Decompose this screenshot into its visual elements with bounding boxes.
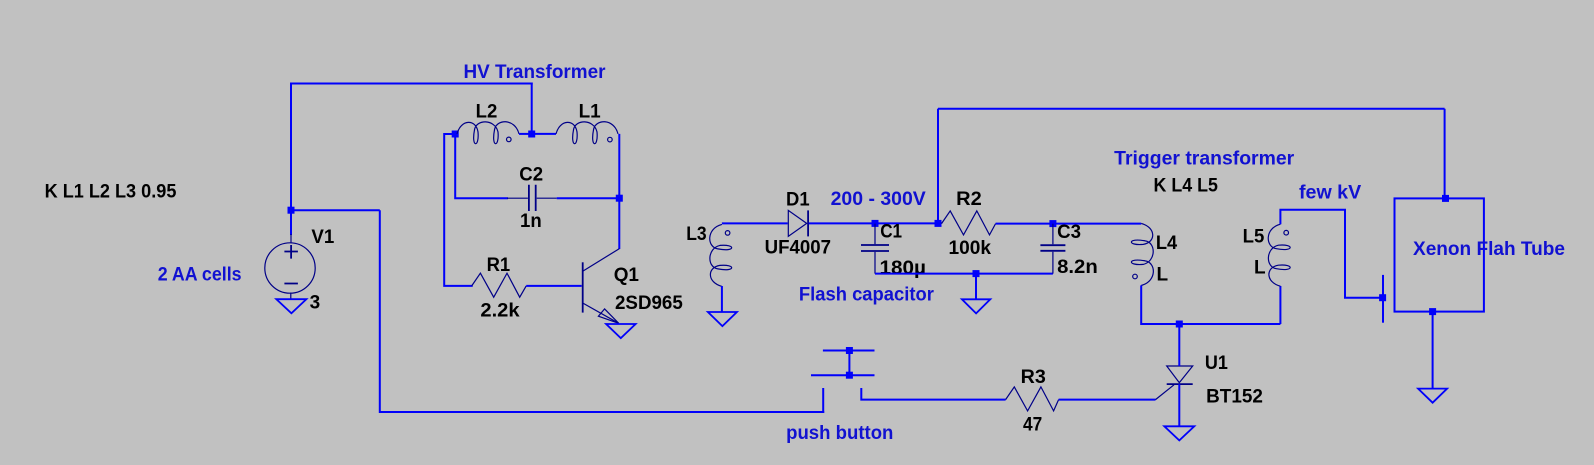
svg-text:U1: U1 [1205,353,1228,374]
resistor R1 [472,273,527,297]
push button top contact [823,350,875,352]
svg-text:3: 3 [310,292,321,313]
push button actuator bar [848,351,850,376]
svg-text:Xenon Flah Tube: Xenon Flah Tube [1413,239,1565,260]
resistor R3 [1006,387,1059,411]
svg-text:8.2n: 8.2n [1057,257,1098,278]
resistor R2 [942,211,996,235]
wire R1 to Q1 base [526,285,582,287]
wire L5 bottom [1279,286,1281,324]
diode D1 [788,210,808,236]
svg-text:C2: C2 [519,165,543,186]
wire L2 right to junction [519,133,532,135]
svg-text:R1: R1 [487,255,511,276]
phase dot L5 [1284,230,1289,235]
wire push button right stub [861,388,1005,400]
wire L1 right down to C2 node [618,134,620,249]
svg-text:L1: L1 [579,101,602,122]
wire L3 top to D1 [722,222,788,224]
capacitor C3 [1040,224,1065,274]
wire U1 anode [1178,324,1180,366]
svg-text:HV Transformer: HV Transformer [464,62,607,83]
inductor L2 [457,122,519,144]
voltage source V1 [265,234,315,299]
node C3 top [1049,220,1056,227]
trigger electrode bar [1382,275,1384,323]
node L2 right junction [528,131,535,138]
inductor L1 [556,122,618,144]
wire L3 bottom to ground [721,286,723,312]
node junction V1 top [288,207,295,214]
node ground junction [973,270,980,277]
wire D1 to C1 node [809,222,938,224]
phase dot L3 [725,231,730,236]
wire push button left stub [822,388,824,413]
wire L5 top to trigger electrode [1280,210,1382,298]
node push button bottom [846,372,853,379]
node U1 top junction [1176,321,1183,328]
wire L2-left to R1 vertical [444,134,473,286]
inductor L4 [1131,223,1153,285]
wire L2-left down to C2 [455,134,508,198]
svg-text:C3: C3 [1057,222,1081,243]
wire V1 top vertical [290,84,292,236]
transistor Q1 [583,249,620,324]
phase dot L4 [1133,274,1138,279]
svg-text:L4: L4 [1156,233,1178,254]
svg-text:few kV: few kV [1299,182,1362,203]
svg-text:47: 47 [1023,414,1042,435]
ground under xenon [1418,389,1447,403]
node L2 left junction [452,131,459,138]
wire top rail down to xenon [1444,109,1446,199]
capacitor C1 [861,224,889,274]
ground under L3 [708,312,737,326]
svg-text:V1: V1 [311,227,334,248]
svg-text:C1: C1 [880,221,902,242]
svg-text:push button: push button [786,423,893,444]
node C2 right junction [616,195,623,202]
wire top rail horizontal [938,108,1445,110]
svg-text:UF4007: UF4007 [765,238,831,259]
phase dot L1 [608,137,613,142]
svg-text:1n: 1n [520,211,542,232]
svg-text:R3: R3 [1021,367,1046,388]
wire top rail vertical drop [937,109,939,224]
ground under V1 [276,299,306,313]
node xenon top [1442,195,1449,202]
svg-text:L3: L3 [686,224,707,245]
svg-text:R2: R2 [956,189,982,210]
svg-text:K L1 L2 L3 0.95: K L1 L2 L3 0.95 [45,182,177,203]
wire U1 cathode to ground [1178,384,1180,426]
wire right vertical down [380,210,824,412]
svg-text:Trigger transformer: Trigger transformer [1114,149,1295,170]
svg-text:180µ: 180µ [880,258,927,279]
inductor L3 [710,224,732,286]
svg-text:L2: L2 [476,101,498,122]
ground under C1/C3 [962,299,990,313]
wire junction to L1 left [532,133,556,135]
wire C1 bottom rail [875,273,1053,275]
svg-text:2.2k: 2.2k [480,300,520,321]
node trigger junction [1379,294,1386,301]
svg-text:Flash capacitor: Flash capacitor [799,284,935,305]
wire top-left horizontal [290,83,533,85]
node R2 left junction [935,220,942,227]
svg-text:2SD965: 2SD965 [615,293,683,314]
wire V1 right horizontal [291,209,380,211]
ground under U1 [1164,426,1194,440]
wire L4 bottom [1141,285,1280,324]
svg-text:L5: L5 [1243,227,1265,248]
node push button top [846,347,853,354]
push button bottom contact [811,374,875,376]
wire down to ground [975,274,977,300]
wire xenon bottom to ground [1432,312,1434,389]
wire C2 right [557,197,620,199]
xenon flash tube body [1395,198,1484,311]
svg-text:L: L [1254,258,1266,279]
wire R3 to U1 gate [1059,399,1156,401]
svg-text:BT152: BT152 [1206,387,1263,408]
svg-text:Q1: Q1 [614,265,640,286]
phase dot L2 [507,137,512,142]
wire down to L2 right terminal [531,83,533,135]
svg-text:200 - 300V: 200 - 300V [831,189,927,210]
svg-text:2 AA cells: 2 AA cells [158,265,242,286]
inductor L5 [1268,224,1290,286]
svg-text:100k: 100k [949,238,992,259]
thyristor U1 [1156,366,1193,400]
svg-text:K L4 L5: K L4 L5 [1154,176,1219,197]
svg-text:L: L [1157,264,1169,285]
svg-text:D1: D1 [786,190,810,211]
node C1 top [872,220,879,227]
ground under Q1 [606,324,636,338]
node xenon bottom [1429,308,1436,315]
wire R2 to C3 [996,223,1142,225]
capacitor C2 [507,185,557,211]
